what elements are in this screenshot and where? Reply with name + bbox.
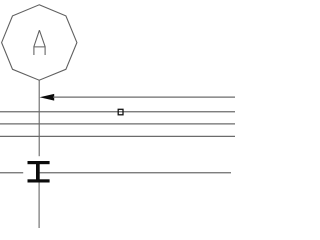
arrowhead on feeder line (points left) — [40, 94, 55, 101]
breaker top bar — [28, 161, 50, 164]
breaker stem — [36, 161, 40, 183]
wire feeder horizontal (arrow line) — [53, 96, 235, 98]
meter letter A — [34, 30, 45, 55]
bus line 2 — [0, 123, 235, 125]
breaker bottom bar — [28, 179, 50, 182]
wire right of breaker — [40, 172, 231, 174]
grip square on bus line 1 — [118, 109, 123, 115]
bus line 3 — [0, 135, 235, 137]
meter M1 octagon — [2, 5, 77, 80]
wire stub left of breaker — [0, 172, 23, 174]
wire vertical from meter to bus — [38, 80, 40, 156]
bus line 1 — [0, 111, 235, 113]
wire vertical below breaker — [38, 183, 40, 229]
